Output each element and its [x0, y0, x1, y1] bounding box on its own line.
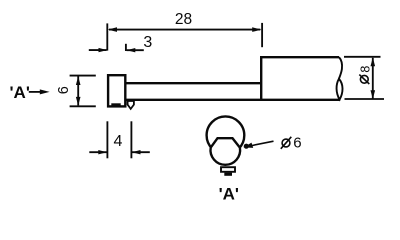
- svg-text:28: 28: [175, 11, 192, 28]
- svg-text:'A': 'A': [219, 185, 239, 204]
- svg-text:3: 3: [143, 34, 152, 51]
- svg-text:4: 4: [114, 133, 123, 150]
- svg-text:8: 8: [358, 66, 372, 73]
- svg-text:6: 6: [56, 86, 72, 94]
- svg-text:6: 6: [293, 135, 301, 152]
- svg-text:'A': 'A': [10, 83, 30, 102]
